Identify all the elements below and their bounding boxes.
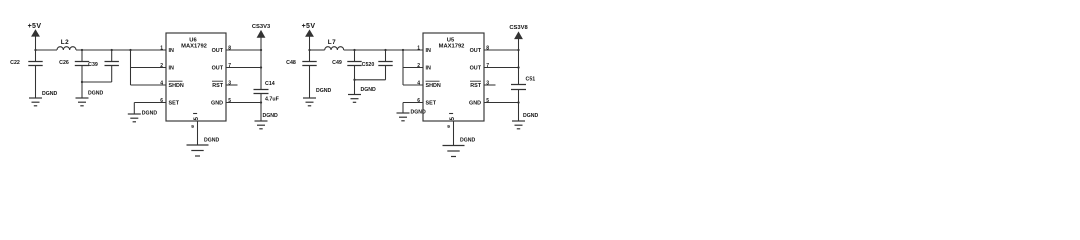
- inductor L2: [57, 39, 76, 50]
- svg-text:DGND: DGND: [204, 138, 220, 144]
- ground DGND at SET pin: [128, 111, 158, 122]
- svg-text:DGND: DGND: [316, 88, 332, 94]
- svg-text:U5: U5: [447, 38, 455, 44]
- pin number 3: [228, 80, 231, 86]
- wire GND pin 5 to output cap ground: [484, 101, 520, 103]
- pin name IN (pin 1): [169, 48, 174, 54]
- pin name IN (pin 1): [426, 48, 431, 54]
- svg-text:+5V: +5V: [28, 23, 42, 30]
- svg-text:C14: C14: [265, 81, 275, 87]
- capacitor C48: [286, 49, 317, 98]
- pin name GND (pin 5): [211, 101, 223, 107]
- capacitor C49: [332, 49, 362, 80]
- capacitor C51: [511, 77, 535, 90]
- svg-text:SHDN: SHDN: [169, 83, 184, 89]
- svg-text:C51: C51: [526, 77, 536, 83]
- svg-text:5: 5: [450, 116, 456, 120]
- pin number 3: [486, 80, 489, 86]
- svg-text:CS3V3: CS3V3: [252, 24, 271, 30]
- svg-text:DGND: DGND: [42, 91, 58, 97]
- svg-text:SET: SET: [426, 101, 437, 107]
- svg-text:+5V: +5V: [302, 23, 316, 30]
- svg-text:C39: C39: [88, 62, 98, 68]
- ground DGND under C48: [303, 88, 332, 106]
- ground DGND under C22: [29, 91, 58, 106]
- power flag +5V (circuit 2): [302, 23, 316, 50]
- inductor L7: [325, 39, 344, 50]
- svg-text:GND: GND: [211, 101, 223, 107]
- svg-text:4.7uF: 4.7uF: [265, 97, 280, 103]
- svg-text:4: 4: [160, 80, 163, 86]
- ground DGND under IC bottom pad: [443, 138, 476, 157]
- wire OUT pin 8 to output node: [226, 49, 262, 51]
- ground DGND under IC bottom pad: [187, 138, 220, 157]
- svg-text:IN: IN: [426, 48, 431, 54]
- wire rail to IN pin 2 and SHDN pin 4: [402, 49, 423, 85]
- pin number 1: [417, 45, 420, 51]
- svg-text:L2: L2: [61, 39, 69, 46]
- ground DGND under C49: [348, 87, 376, 102]
- wire output node vertical: [260, 50, 262, 121]
- wire bottom pad to ground: [447, 121, 453, 145]
- wire SET pin 6 to ground: [403, 103, 423, 113]
- pin number 6: [160, 98, 163, 104]
- pin name OUT (pin 8): [470, 48, 482, 54]
- wire bottom pad to ground: [191, 121, 197, 145]
- svg-text:MAX1792: MAX1792: [181, 44, 207, 50]
- power flag CS3V3 (output net): [252, 24, 271, 50]
- svg-text:RST: RST: [470, 83, 481, 89]
- svg-text:IN: IN: [426, 66, 431, 72]
- capacitor C520: [362, 49, 393, 80]
- svg-text:SHDN: SHDN: [426, 83, 441, 89]
- wire RST pin 3 stub (unconnected): [226, 84, 238, 86]
- wire input rail (+5V net): [310, 49, 424, 51]
- svg-text:DGND: DGND: [460, 138, 476, 144]
- wire OUT pin 7 to output node: [226, 66, 262, 68]
- pin name IN (pin 2): [169, 66, 174, 72]
- svg-text:DGND: DGND: [361, 87, 377, 93]
- ground DGND under C26: [76, 91, 104, 106]
- svg-text:GND: GND: [469, 101, 481, 107]
- pin number 1: [160, 45, 163, 51]
- pin number 4: [160, 80, 163, 86]
- svg-text:RST: RST: [212, 83, 223, 89]
- pin name OUT (pin 8): [212, 48, 224, 54]
- ground DGND under C14: [255, 113, 279, 129]
- svg-text:CS3V8: CS3V8: [509, 25, 528, 31]
- svg-text:C22: C22: [10, 60, 20, 66]
- ground DGND under C51: [512, 113, 539, 129]
- pin number 7: [486, 63, 489, 69]
- power flag CS3V8 (output net): [509, 25, 528, 50]
- pin number 5 (bottom pad, rotated): [449, 114, 456, 121]
- IC U6 MAX1792 voltage regulator body: [166, 33, 226, 121]
- wire rail to IN pin 2 and SHDN pin 4: [129, 49, 166, 85]
- svg-text:5: 5: [194, 116, 200, 120]
- wire SET pin 6 to ground: [134, 103, 166, 114]
- svg-text:SET: SET: [169, 101, 180, 107]
- capacitor C39: [88, 49, 119, 82]
- pin number 2: [417, 63, 420, 69]
- svg-text:OUT: OUT: [470, 48, 482, 54]
- pin number 2: [160, 63, 163, 69]
- pin name OUT (pin 7): [470, 66, 482, 72]
- pin number 7: [228, 63, 231, 69]
- svg-text:2: 2: [417, 63, 420, 69]
- wire input rail (+5V net): [36, 49, 167, 51]
- pin name RST (pin 3): [470, 81, 482, 89]
- pin name SET (pin 6): [426, 101, 437, 107]
- svg-text:DGND: DGND: [142, 111, 158, 117]
- pin name SHDN (pin 4): [169, 81, 184, 89]
- pin name IN (pin 2): [426, 66, 431, 72]
- svg-text:OUT: OUT: [212, 66, 224, 72]
- capacitor C14: [254, 81, 280, 103]
- svg-text:OUT: OUT: [212, 48, 224, 54]
- pin number 6: [417, 98, 420, 104]
- svg-text:OUT: OUT: [470, 66, 482, 72]
- pin name GND (pin 5): [469, 101, 481, 107]
- svg-text:1: 1: [160, 45, 163, 51]
- pin name SET (pin 6): [169, 101, 180, 107]
- pin name OUT (pin 7): [212, 66, 224, 72]
- IC U5 MAX1792 voltage regulator body: [423, 33, 484, 121]
- wire GND pin 5 to output cap ground: [226, 101, 262, 103]
- svg-text:9: 9: [191, 124, 194, 130]
- svg-text:2: 2: [160, 63, 163, 69]
- svg-text:1: 1: [417, 45, 420, 51]
- wire RST pin 3 stub (unconnected): [484, 84, 496, 86]
- pin number 5: [228, 98, 231, 104]
- pin number 5: [486, 98, 489, 104]
- pin number 8: [228, 45, 231, 51]
- svg-text:DGND: DGND: [523, 113, 539, 119]
- svg-text:DGND: DGND: [263, 113, 279, 119]
- capacitor C22: [10, 49, 43, 98]
- svg-text:IN: IN: [169, 48, 174, 54]
- svg-text:C48: C48: [286, 60, 296, 66]
- wire C49/C520 bottoms join: [353, 79, 385, 94]
- svg-text:C49: C49: [332, 60, 342, 66]
- pin number 8: [486, 45, 489, 51]
- wire OUT pin 8 to output node: [484, 49, 520, 51]
- svg-text:U6: U6: [189, 38, 197, 44]
- pin number 5 (bottom pad, rotated): [193, 114, 200, 121]
- wire output node vertical: [518, 50, 520, 121]
- svg-text:4: 4: [417, 80, 420, 86]
- svg-text:C26: C26: [59, 60, 69, 66]
- pin name RST (pin 3): [212, 81, 224, 89]
- svg-text:9: 9: [447, 124, 450, 130]
- wire C26/C39 bottoms join: [81, 81, 112, 98]
- svg-text:MAX1792: MAX1792: [439, 44, 465, 50]
- svg-text:DGND: DGND: [411, 110, 427, 116]
- svg-text:L7: L7: [328, 39, 336, 46]
- svg-text:C520: C520: [362, 62, 375, 68]
- pin name SHDN (pin 4): [426, 81, 441, 89]
- wire OUT pin 7 to output node: [484, 66, 520, 68]
- capacitor C26: [59, 49, 89, 82]
- svg-text:IN: IN: [169, 66, 174, 72]
- svg-text:DGND: DGND: [88, 91, 104, 97]
- pin number 4: [417, 80, 420, 86]
- ground DGND at SET pin: [397, 110, 427, 121]
- power flag +5V (circuit 1): [28, 23, 42, 50]
